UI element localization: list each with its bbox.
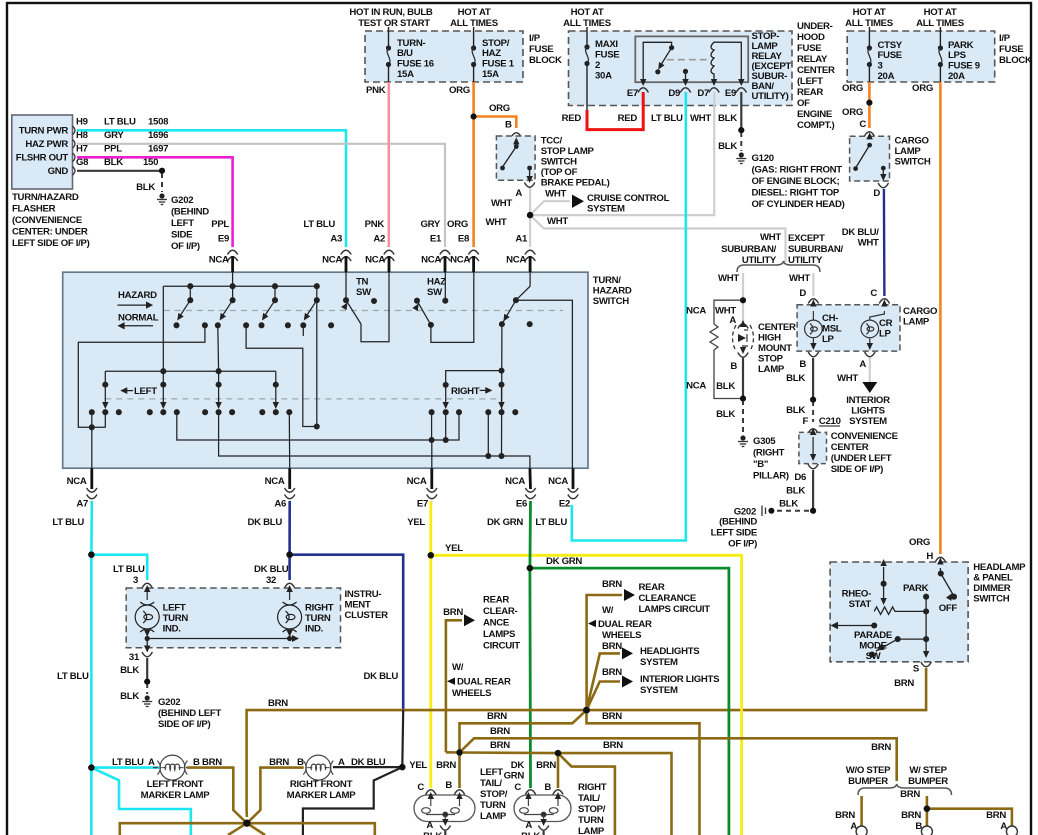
svg-text:BLK: BLK xyxy=(716,381,735,392)
svg-text:SUBURBAN/: SUBURBAN/ xyxy=(721,244,776,255)
svg-text:BLOCK: BLOCK xyxy=(999,55,1032,66)
upper unit 1 xyxy=(188,284,193,289)
svg-text:FUSE: FUSE xyxy=(595,50,620,61)
svg-text:A: A xyxy=(859,359,866,370)
wire BRN left callout joins splice xyxy=(446,751,460,754)
svg-text:RIGHT: RIGHT xyxy=(451,386,480,397)
svg-text:FUSE 9: FUSE 9 xyxy=(948,61,980,72)
svg-text:B: B xyxy=(544,782,551,793)
svg-text:HEADLAMP: HEADLAMP xyxy=(973,562,1026,573)
svg-text:LAMPS CIRCUIT: LAMPS CIRCUIT xyxy=(639,604,711,615)
svg-text:PILLAR): PILLAR) xyxy=(753,471,789,482)
svg-text:EXCEPT: EXCEPT xyxy=(788,233,825,244)
svg-text:SWITCH: SWITCH xyxy=(541,157,577,168)
svg-text:H: H xyxy=(926,551,933,562)
svg-text:30A: 30A xyxy=(595,71,612,82)
wire BRN hub diagonals down xyxy=(228,823,247,835)
svg-text:D7: D7 xyxy=(697,88,709,99)
svg-text:LEFT: LEFT xyxy=(171,218,194,229)
svg-text:W/: W/ xyxy=(452,662,464,673)
svg-text:FUSE: FUSE xyxy=(999,44,1024,55)
wire BRN hub to interior lights system xyxy=(587,682,621,711)
svg-text:YEL: YEL xyxy=(407,517,425,528)
svg-text:FUSE: FUSE xyxy=(797,43,822,54)
wire GRY 1696 H8 to E1 xyxy=(77,144,445,247)
svg-text:WHT: WHT xyxy=(760,232,781,243)
wire LT BLU to left front marker A xyxy=(91,766,159,769)
svg-text:NCA: NCA xyxy=(686,306,706,317)
svg-text:BLK: BLK xyxy=(718,141,737,152)
svg-text:F: F xyxy=(802,416,808,427)
svg-text:BLOCK: BLOCK xyxy=(529,55,562,66)
node left tail B splice xyxy=(456,749,462,755)
svg-text:STOP: STOP xyxy=(758,354,784,365)
svg-text:REAR: REAR xyxy=(797,87,823,98)
wire unit drop to bus456 right xyxy=(487,412,489,456)
park column xyxy=(923,594,929,658)
svg-text:(BEHIND: (BEHIND xyxy=(171,207,209,218)
cluster common return xyxy=(145,636,150,641)
wire LT BLU 1508 H9 to A3 xyxy=(77,130,346,247)
svg-text:ORG: ORG xyxy=(489,103,510,114)
svg-text:BRN: BRN xyxy=(602,579,622,590)
svg-text:BRN: BRN xyxy=(268,698,288,709)
svg-text:NCA: NCA xyxy=(209,255,229,266)
svg-text:CENTER: CENTER xyxy=(758,322,796,333)
svg-text:BRN: BRN xyxy=(436,760,456,771)
wire DK BLU right marker A path xyxy=(401,710,404,767)
svg-text:C: C xyxy=(870,288,877,299)
svg-text:(UNDER LEFT: (UNDER LEFT xyxy=(831,453,892,464)
right lower units xyxy=(446,371,502,385)
svg-text:LP: LP xyxy=(822,334,835,345)
connector C210 / convenience center xyxy=(794,428,898,483)
LEFT legend xyxy=(134,386,157,397)
svg-text:RED: RED xyxy=(562,113,582,124)
relay U1 stop-lamp relay xyxy=(627,31,792,102)
svg-text:NCA: NCA xyxy=(407,476,427,487)
svg-text:WHT: WHT xyxy=(545,189,566,200)
svg-text:LIGHTS: LIGHTS xyxy=(851,406,885,417)
svg-text:FUSE: FUSE xyxy=(878,50,903,61)
wire BRN w/o step bumper branch xyxy=(860,796,863,826)
node main hub dot xyxy=(583,707,590,714)
wire BLK cluster to G202 xyxy=(146,658,148,682)
svg-text:TURN/HAZARD: TURN/HAZARD xyxy=(12,192,79,203)
wire BRN right splice diagonal to 766 drop xyxy=(558,753,615,835)
svg-text:H9: H9 xyxy=(76,117,88,128)
svg-text:H8: H8 xyxy=(76,130,89,141)
svg-text:OF I/P): OF I/P) xyxy=(728,539,757,550)
svg-text:1696: 1696 xyxy=(148,130,168,141)
svg-text:HAZARD: HAZARD xyxy=(118,290,157,301)
svg-text:INTERIOR LIGHTS: INTERIOR LIGHTS xyxy=(640,674,720,685)
svg-text:BLK: BLK xyxy=(786,486,805,497)
svg-text:ORG: ORG xyxy=(842,83,863,94)
svg-text:3: 3 xyxy=(133,575,138,586)
svg-text:YEL: YEL xyxy=(409,760,427,771)
svg-text:PNK: PNK xyxy=(366,85,386,96)
I/P fuse block (right) xyxy=(845,7,1032,82)
svg-text:W/ STEP: W/ STEP xyxy=(909,765,947,776)
wire BRN hub to headlights system xyxy=(587,653,621,710)
svg-text:MAXI: MAXI xyxy=(595,39,618,50)
svg-text:BUMPER: BUMPER xyxy=(848,776,888,787)
svg-text:DK GRN: DK GRN xyxy=(487,517,523,528)
svg-text:(BEHIND: (BEHIND xyxy=(719,517,757,528)
upper unit 4 xyxy=(314,284,319,289)
node ORG branch to TCC switch xyxy=(471,114,477,120)
svg-text:W/: W/ xyxy=(602,605,614,616)
svg-text:SUBURBAN/: SUBURBAN/ xyxy=(788,244,843,255)
svg-text:LAMP: LAMP xyxy=(895,146,922,157)
upper dashed guide xyxy=(164,310,563,312)
wire BRN w/ step bumper branch xyxy=(926,796,929,826)
svg-text:ORG: ORG xyxy=(912,83,933,94)
svg-text:G202: G202 xyxy=(158,697,180,708)
svg-text:HOOD: HOOD xyxy=(797,32,825,43)
svg-text:CLUSTER: CLUSTER xyxy=(345,610,389,621)
svg-text:A3: A3 xyxy=(330,234,342,245)
svg-text:ORG: ORG xyxy=(842,107,863,118)
wire BRN right splice to x671 drop xyxy=(558,753,672,835)
svg-text:BRN: BRN xyxy=(602,667,622,678)
svg-text:HEADLIGHTS: HEADLIGHTS xyxy=(640,646,700,657)
svg-text:B: B xyxy=(730,361,737,372)
svg-text:PNK: PNK xyxy=(365,219,385,230)
svg-text:BRN: BRN xyxy=(443,607,463,618)
I/P fuse block (left) xyxy=(349,7,562,82)
svg-text:RELAY: RELAY xyxy=(797,54,828,65)
wire BRN right marker B to hub xyxy=(247,768,304,824)
svg-text:CENTER: CENTER xyxy=(831,442,869,453)
svg-text:LAMP: LAMP xyxy=(903,317,930,328)
svg-text:SYSTEM: SYSTEM xyxy=(640,685,678,696)
wire WHT node to relay D7 xyxy=(530,92,714,215)
svg-text:BRN: BRN xyxy=(871,742,891,753)
svg-text:GRY: GRY xyxy=(104,130,124,141)
wire LT BLU relay D9 down to E2 jog xyxy=(572,92,686,541)
node right tail B splice xyxy=(555,750,561,756)
svg-text:NCA: NCA xyxy=(365,255,385,266)
wire LT BLU down-left staircase xyxy=(90,768,93,835)
bulb CH-MSL LP xyxy=(805,300,823,357)
svg-text:OF ENGINE BLOCK;: OF ENGINE BLOCK; xyxy=(752,176,840,187)
svg-text:CIRCUIT: CIRCUIT xyxy=(483,641,520,652)
svg-text:SYSTEM: SYSTEM xyxy=(640,657,678,668)
svg-text:STOP LAMP: STOP LAMP xyxy=(541,146,595,157)
svg-text:(TOP OF: (TOP OF xyxy=(541,167,578,178)
svg-text:TN: TN xyxy=(356,277,369,288)
fuse PARK LPS FUSE 9 20A xyxy=(938,27,980,82)
svg-text:B/U: B/U xyxy=(397,48,413,59)
wire BRN splice to right tail splice xyxy=(460,751,559,754)
svg-text:IND.: IND. xyxy=(305,624,323,635)
fuse CTSY FUSE 3 20A xyxy=(867,27,903,82)
svg-text:HOT AT: HOT AT xyxy=(853,7,886,18)
svg-text:DK BLU: DK BLU xyxy=(364,671,399,682)
svg-text:C: C xyxy=(859,119,866,130)
A1 unit xyxy=(516,272,530,300)
wire BRN w/ step second lamp xyxy=(927,809,1012,826)
svg-text:D: D xyxy=(873,188,880,199)
lamp left turn indicator xyxy=(135,585,159,639)
svg-text:DK: DK xyxy=(511,760,525,771)
svg-text:OF I/P): OF I/P) xyxy=(171,241,200,252)
wire WHT suburban branch to CHMSL xyxy=(742,273,744,322)
svg-text:HAZARD: HAZARD xyxy=(593,286,632,297)
svg-text:G8: G8 xyxy=(76,157,89,168)
switch internals xyxy=(78,272,572,468)
svg-text:TCC/: TCC/ xyxy=(541,136,563,147)
svg-text:A: A xyxy=(515,188,522,199)
svg-text:NCA: NCA xyxy=(322,255,342,266)
lower unit 3 xyxy=(216,382,221,387)
wire lower loop y440 xyxy=(177,411,459,441)
lower bus xyxy=(105,370,275,372)
svg-text:LT BLU: LT BLU xyxy=(535,517,567,528)
lamp right tail/stop/turn xyxy=(514,782,607,835)
wire RED maxi fuse to relay E7 xyxy=(587,92,643,130)
svg-text:LT BLU: LT BLU xyxy=(52,517,84,528)
wire DK GRN E6 run xyxy=(529,501,532,568)
svg-text:NCA: NCA xyxy=(450,255,470,266)
top bus left leg to lower bus xyxy=(162,286,164,384)
svg-text:1697: 1697 xyxy=(148,144,168,155)
svg-text:LAMP: LAMP xyxy=(758,364,785,375)
svg-text:NCA: NCA xyxy=(67,476,87,487)
wire BRN hub bus right xyxy=(247,823,375,835)
lamp right front marker xyxy=(303,755,333,780)
svg-text:BRN: BRN xyxy=(490,740,510,751)
svg-text:S: S xyxy=(913,664,920,675)
svg-text:FUSE: FUSE xyxy=(529,44,554,55)
svg-text:WHT: WHT xyxy=(837,373,858,384)
svg-text:BLK: BLK xyxy=(716,409,735,420)
wire PNK fuse16 to A2 xyxy=(387,82,390,247)
svg-text:C: C xyxy=(514,782,521,793)
svg-text:BLK: BLK xyxy=(423,831,442,835)
svg-text:SYSTEM: SYSTEM xyxy=(849,416,887,427)
svg-text:LT BLU: LT BLU xyxy=(651,113,683,124)
junction dot overlay xyxy=(88,100,930,827)
wire E7 column inside xyxy=(431,412,433,440)
svg-text:B: B xyxy=(445,780,452,791)
wire BLK CH-MSL LP to C210 xyxy=(812,358,814,400)
wire BLK D6 to G202 xyxy=(812,470,814,511)
svg-text:MARKER LAMP: MARKER LAMP xyxy=(287,790,357,801)
svg-text:LT BLU: LT BLU xyxy=(57,671,89,682)
wire upper unit2 contact loop right xyxy=(246,325,317,426)
svg-text:OF: OF xyxy=(797,98,810,109)
svg-text:WHT: WHT xyxy=(858,238,879,249)
wire ORG fuse1 to E8 xyxy=(472,82,475,247)
svg-text:FUSE 16: FUSE 16 xyxy=(397,59,434,70)
svg-text:WHT: WHT xyxy=(718,273,739,284)
wire upper contact to A7 loop xyxy=(78,325,205,427)
node NCA resistor branch xyxy=(710,300,743,398)
svg-text:BLK: BLK xyxy=(136,182,155,193)
svg-text:E7: E7 xyxy=(627,88,638,99)
lamp right turn indicator xyxy=(278,585,302,639)
svg-text:(GAS: RIGHT FRONT: (GAS: RIGHT FRONT xyxy=(752,165,843,176)
svg-text:SWITCH: SWITCH xyxy=(593,296,629,307)
svg-text:E8: E8 xyxy=(458,234,470,245)
svg-text:RHEO-: RHEO- xyxy=(842,589,872,600)
wire DK BLU/WHT cargo switch to cargo lamp C xyxy=(883,189,886,296)
svg-text:BLK: BLK xyxy=(120,665,139,676)
wire BRN hub diagonal to 723 line left xyxy=(460,710,587,752)
ground G202 (cluster) xyxy=(142,695,152,706)
svg-text:A: A xyxy=(426,820,433,831)
svg-text:32: 32 xyxy=(266,575,276,586)
svg-text:HIGH: HIGH xyxy=(758,333,781,344)
relay contact xyxy=(643,42,671,82)
TCC/stop lamp switch S2 xyxy=(496,133,609,199)
wire lower unit3 drop to bus456 xyxy=(219,412,530,468)
svg-text:E9: E9 xyxy=(725,88,736,99)
svg-text:ANCE: ANCE xyxy=(483,618,510,629)
HAZ SW xyxy=(427,277,446,299)
svg-text:LAMPS: LAMPS xyxy=(483,629,516,640)
svg-text:STOP/: STOP/ xyxy=(578,804,606,815)
wire BLK CHMSL to G305 xyxy=(742,358,744,399)
svg-text:C: C xyxy=(417,782,424,793)
bottom pin connectors A7 A6 E7 E6 E2 xyxy=(52,468,578,528)
svg-text:GND: GND xyxy=(48,166,69,177)
svg-text:CENTER: UNDER: CENTER: UNDER xyxy=(12,227,88,238)
svg-text:E9: E9 xyxy=(218,234,229,245)
svg-text:LEFT: LEFT xyxy=(134,386,157,397)
svg-text:WHT: WHT xyxy=(491,198,512,209)
underhood fuse relay center box xyxy=(563,7,835,131)
svg-text:UTILITY): UTILITY) xyxy=(752,91,789,102)
svg-text:COMPT.): COMPT.) xyxy=(797,120,834,131)
svg-text:DIMMER: DIMMER xyxy=(973,583,1010,594)
svg-text:INSTRU-: INSTRU- xyxy=(345,589,382,600)
svg-text:BRN: BRN xyxy=(894,678,914,689)
svg-text:A7: A7 xyxy=(76,499,88,510)
svg-text:MSL: MSL xyxy=(822,324,842,335)
svg-text:REAR: REAR xyxy=(483,595,509,606)
svg-text:CENTER: CENTER xyxy=(797,65,835,76)
svg-text:WHEELS: WHEELS xyxy=(452,688,492,699)
svg-text:D9: D9 xyxy=(668,88,680,99)
svg-text:REAR: REAR xyxy=(639,582,665,593)
wire BRN right tail B drop xyxy=(557,753,560,788)
wire BRN hub down to 723 line right xyxy=(587,710,700,835)
svg-text:TURN: TURN xyxy=(578,815,604,826)
wire BRN S to main bus xyxy=(587,668,927,710)
wire WHT to cruise control xyxy=(530,201,570,215)
svg-text:TEST OR START: TEST OR START xyxy=(358,18,430,29)
svg-text:LAMP: LAMP xyxy=(578,826,605,835)
ground G202 (flasher) xyxy=(157,193,167,204)
svg-text:ORG: ORG xyxy=(449,85,470,96)
svg-text:OFF: OFF xyxy=(939,603,958,614)
cargo lamp assembly box xyxy=(797,299,938,351)
svg-text:D6: D6 xyxy=(794,472,806,483)
wire ORG ctsy fuse to cargo switch xyxy=(868,82,871,128)
turn/hazard switch S1 box xyxy=(63,272,632,468)
wire A7 column inside xyxy=(92,412,106,427)
wire BLK relay E9 to G120 xyxy=(740,92,742,130)
svg-text:I/P: I/P xyxy=(529,33,541,44)
wire LT BLU A7 down xyxy=(90,501,93,555)
svg-text:150: 150 xyxy=(143,157,158,168)
svg-text:LT BLU: LT BLU xyxy=(104,117,136,128)
top pin connectors E9 A3 A2 E1 E8 A1 xyxy=(209,219,536,272)
svg-text:(CONVENIENCE: (CONVENIENCE xyxy=(12,215,83,226)
lamp left tail/stop/turn xyxy=(414,767,508,835)
svg-text:NCA: NCA xyxy=(265,476,285,487)
svg-text:BRN: BRN xyxy=(602,641,622,652)
headlamp & panel dimmer switch S4 xyxy=(830,557,1026,674)
lamp CHMSL center high mount stop lamp xyxy=(733,320,754,357)
svg-text:DUAL REAR: DUAL REAR xyxy=(457,677,511,688)
rheostat xyxy=(874,559,926,614)
svg-text:MENT: MENT xyxy=(345,600,371,611)
svg-text:ALL TIMES: ALL TIMES xyxy=(450,18,499,29)
svg-text:H7: H7 xyxy=(76,144,88,155)
ground G202 (convenience) xyxy=(762,506,766,517)
svg-text:NCA: NCA xyxy=(505,476,525,487)
relay linkage xyxy=(667,59,709,61)
svg-text:20A: 20A xyxy=(878,71,895,82)
svg-text:B: B xyxy=(799,359,806,370)
lamp left front marker xyxy=(157,755,187,780)
svg-text:LAMP: LAMP xyxy=(480,811,507,822)
wire A1 hazard feed column xyxy=(501,324,503,456)
svg-text:W/O STEP: W/O STEP xyxy=(846,765,891,776)
svg-text:DIESEL: RIGHT TOP: DIESEL: RIGHT TOP xyxy=(752,188,840,199)
svg-text:YEL: YEL xyxy=(445,543,463,554)
wire WHT node to A1 xyxy=(529,215,531,247)
wire BRN hub bus left xyxy=(120,823,247,835)
svg-text:BUMPER: BUMPER xyxy=(908,776,948,787)
wire DK BLU A6 down xyxy=(288,501,291,555)
svg-text:CLEAR-: CLEAR- xyxy=(483,606,518,617)
relay pin D9 stub xyxy=(683,69,688,74)
svg-text:BRAKE PEDAL): BRAKE PEDAL) xyxy=(541,178,610,189)
svg-text:15A: 15A xyxy=(397,69,414,80)
svg-text:DK GRN: DK GRN xyxy=(546,556,582,567)
relay coil xyxy=(711,42,741,82)
wire WHT CR LP to interior lights xyxy=(869,358,871,382)
svg-text:BRN: BRN xyxy=(603,740,623,751)
svg-text:3: 3 xyxy=(878,61,883,72)
svg-text:SW: SW xyxy=(356,287,372,298)
svg-text:BRN: BRN xyxy=(835,810,855,821)
wire WHT except branch to cargo lamp D xyxy=(812,273,814,296)
svg-text:SW: SW xyxy=(866,651,882,662)
svg-text:CARGO: CARGO xyxy=(903,306,938,317)
node WHT junction xyxy=(527,212,533,218)
svg-text:A: A xyxy=(729,315,736,326)
svg-text:SIDE: SIDE xyxy=(171,230,193,241)
svg-text:(BEHIND LEFT: (BEHIND LEFT xyxy=(158,708,221,719)
svg-text:BRN: BRN xyxy=(900,789,920,800)
svg-text:OF CYLINDER HEAD): OF CYLINDER HEAD) xyxy=(752,199,845,210)
ground G305 xyxy=(738,435,748,446)
svg-text:PPL: PPL xyxy=(104,144,122,155)
bulb CR LP xyxy=(861,300,888,357)
svg-text:CLEARANCE: CLEARANCE xyxy=(639,593,697,604)
svg-text:& PANEL: & PANEL xyxy=(973,573,1013,584)
svg-text:WHEELS: WHEELS xyxy=(602,630,642,641)
upper unit 3 xyxy=(273,284,278,289)
svg-text:NORMAL: NORMAL xyxy=(118,313,159,324)
